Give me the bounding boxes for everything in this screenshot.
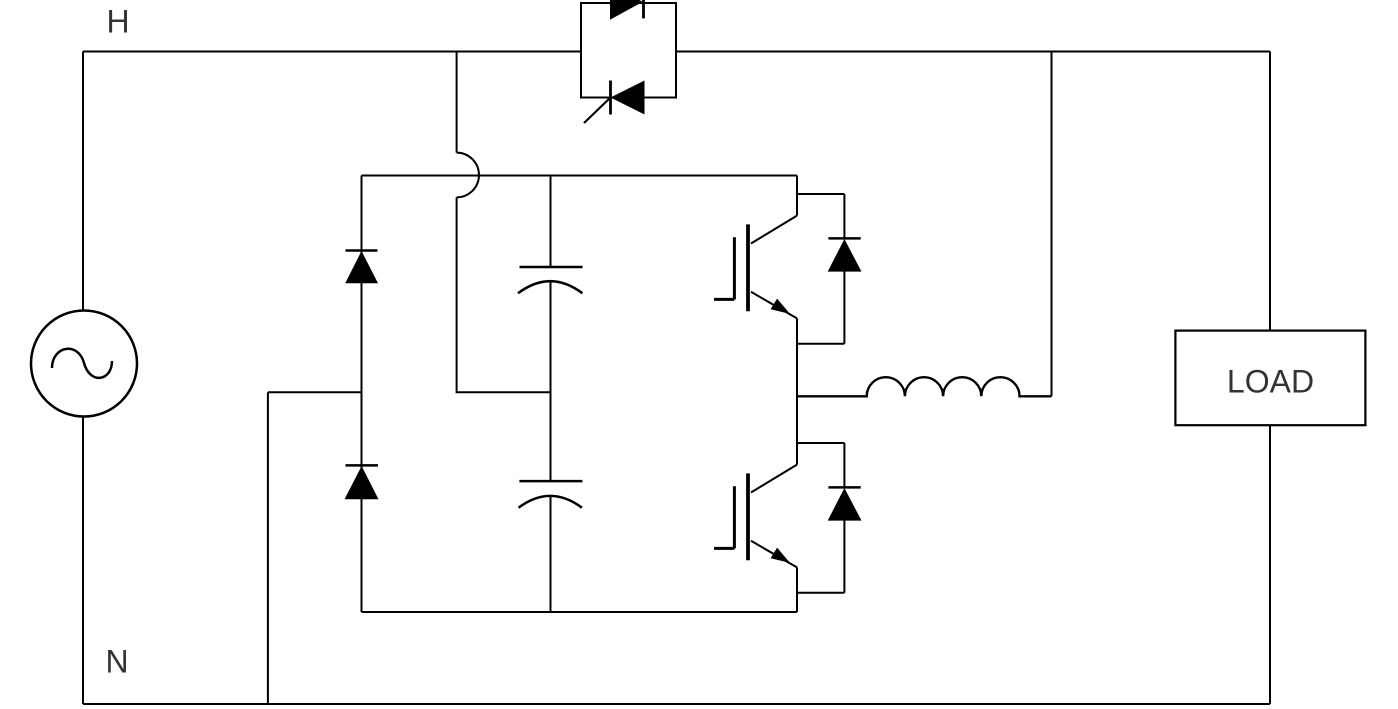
svg-text:N: N	[105, 644, 128, 680]
svg-text:H: H	[106, 4, 129, 40]
svg-text:LOAD: LOAD	[1227, 364, 1314, 400]
